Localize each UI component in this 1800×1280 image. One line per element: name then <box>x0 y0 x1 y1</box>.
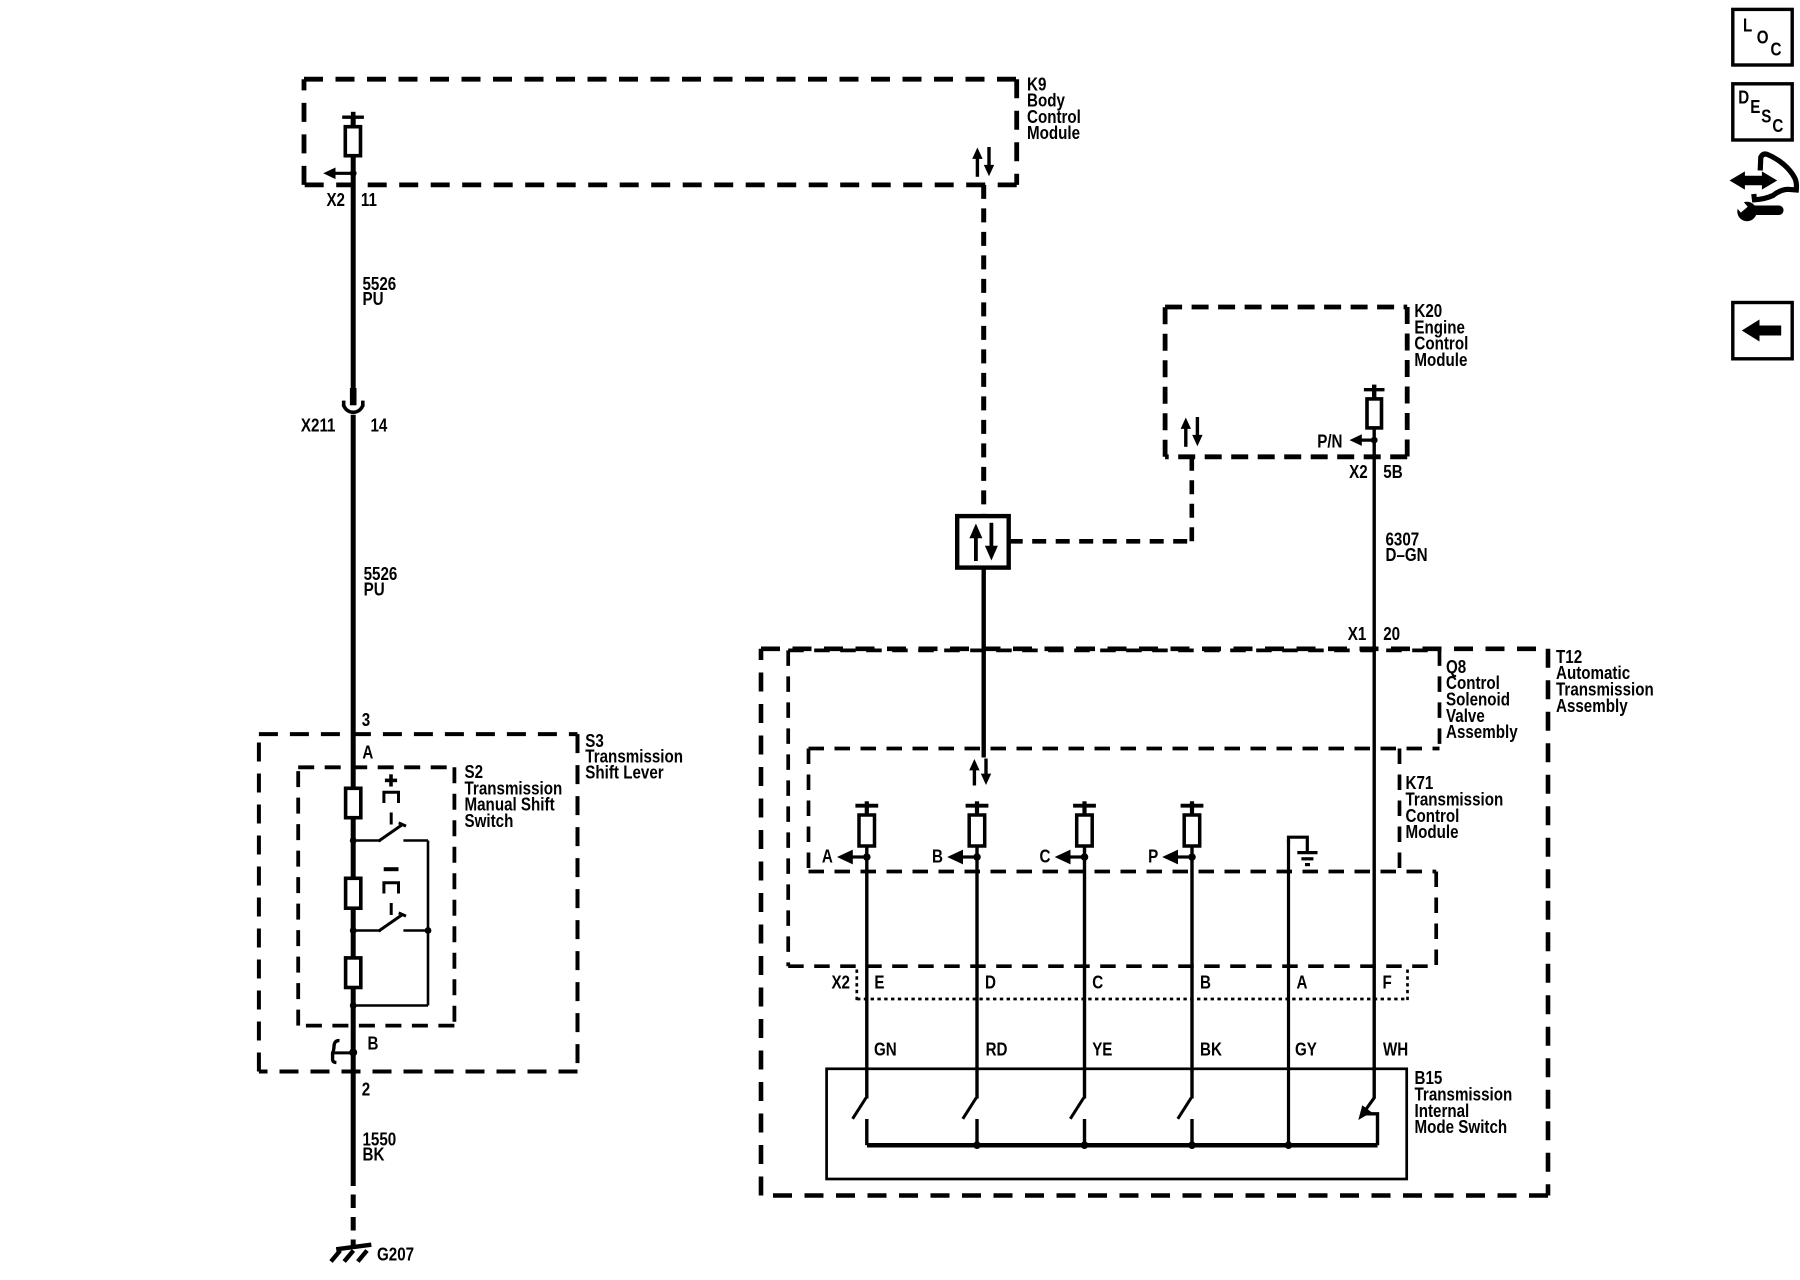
svg-text:S: S <box>1761 106 1771 127</box>
solenoid driver P in K71 <box>1162 801 1203 864</box>
wire: X211 to S2 (5526 PU lower) <box>351 415 356 791</box>
svg-text:11: 11 <box>361 190 377 211</box>
wire A (GY): ground to B15 bus <box>1287 840 1290 1145</box>
wire D: solenoid B to B15 <box>975 806 978 1099</box>
svg-text:Module: Module <box>1027 123 1080 144</box>
wire label 6307 D-GN <box>1386 529 1428 565</box>
solenoid driver C in K71 <box>1055 801 1096 864</box>
svg-text:E: E <box>874 972 884 993</box>
svg-text:PU: PU <box>364 579 385 600</box>
signal ground inside K71 <box>1289 837 1318 864</box>
wire B: solenoid P to B15 <box>1190 806 1193 1099</box>
svg-text:C: C <box>1772 115 1783 136</box>
node on bracket at downshift row <box>425 927 432 934</box>
svg-text:B: B <box>932 846 943 867</box>
resistor R2 <box>346 878 361 908</box>
svg-text:D: D <box>1738 87 1749 108</box>
svg-text:Module: Module <box>1406 822 1459 843</box>
svg-text:D: D <box>985 972 996 993</box>
T12 label <box>1556 646 1654 716</box>
svg-text:Switch: Switch <box>465 810 514 831</box>
wire E: solenoid A to B15 <box>865 806 868 1099</box>
connector pin letters E D C B A F <box>874 972 1391 993</box>
B15 Transmission Internal Mode Switch box <box>827 1069 1407 1179</box>
Q8 label <box>1446 656 1518 742</box>
svg-text:L: L <box>1743 15 1752 36</box>
T12 Automatic Transmission Assembly box <box>761 649 1548 1196</box>
dashed serial data wire from K9 to gateway box <box>981 185 986 516</box>
svg-text:14: 14 <box>371 415 388 436</box>
svg-text:BK: BK <box>1200 1039 1223 1060</box>
K20 Engine Control Module box <box>1165 307 1407 457</box>
solenoid driver B in K71 <box>947 801 988 864</box>
svg-text:P: P <box>1148 846 1158 867</box>
svg-text:B: B <box>368 1033 379 1054</box>
svg-text:WH: WH <box>1383 1039 1408 1060</box>
K71 label <box>1406 773 1504 843</box>
K71 Transmission Control Module box <box>809 749 1440 872</box>
svg-text:X1: X1 <box>1348 623 1367 644</box>
bus junction nodes <box>973 1141 1292 1149</box>
wire label 5526 PU (lower) <box>364 564 398 600</box>
wire color labels GN RD YE BK GY WH <box>874 1039 1408 1060</box>
pin labels X1 / 20 <box>1348 623 1400 644</box>
schematic navigation icon (arrows and wrench) <box>1733 154 1797 221</box>
S2 Transmission Manual Shift Switch box <box>298 767 454 1025</box>
mode switch contact E <box>853 1098 867 1145</box>
mode switch wiper contact F (with arrow) <box>1358 1098 1377 1145</box>
S3 label <box>585 730 683 782</box>
svg-text:GY: GY <box>1295 1039 1317 1060</box>
svg-text:Shift Lever: Shift Lever <box>585 762 664 783</box>
wire label 5526 PU (upper) <box>363 273 397 309</box>
svg-text:Mode Switch: Mode Switch <box>1415 1117 1508 1138</box>
upshift switch contact <box>353 823 428 841</box>
svg-text:A: A <box>1297 972 1308 993</box>
svg-text:X2: X2 <box>1349 462 1368 483</box>
node: R1-R2 junction <box>350 837 357 844</box>
back arrow icon button <box>1733 303 1792 359</box>
ground G207 <box>331 1245 371 1262</box>
wire through S2 (A to B) <box>351 789 356 1073</box>
svg-text:Assembly: Assembly <box>1556 695 1628 716</box>
fuse element inside K9 <box>342 112 364 156</box>
upshift actuator + <box>385 774 397 786</box>
node: R2-R3 junction <box>350 927 357 934</box>
svg-text:O: O <box>1757 27 1769 48</box>
resistor R1 <box>346 788 361 817</box>
K9 Body Control Module box <box>304 79 1017 185</box>
P/N output arrow in K20 <box>1350 434 1378 446</box>
K20 module label <box>1414 301 1468 371</box>
serial data arrows inside K9 <box>972 147 994 177</box>
common bus of B15 <box>867 1143 1378 1148</box>
K9 module label <box>1027 74 1081 144</box>
svg-text:3: 3 <box>362 710 370 731</box>
S2 label <box>465 762 563 832</box>
solenoid driver A in K71 <box>837 801 878 864</box>
K9 output arrow at pin X2-11 <box>323 168 356 180</box>
svg-text:P/N: P/N <box>1317 431 1342 452</box>
downshift actuator - <box>384 867 399 871</box>
svg-text:G207: G207 <box>377 1244 414 1265</box>
wire 1550 BK to ground <box>351 1071 356 1186</box>
serial data arrows inside K20 <box>1181 417 1203 447</box>
svg-text:X2: X2 <box>831 972 850 993</box>
svg-text:GN: GN <box>874 1039 897 1060</box>
wire C: solenoid C to B15 <box>1083 806 1086 1099</box>
svg-text:C: C <box>1092 972 1103 993</box>
X2 connector strip of T12 (bottom dotted edge and separators) <box>857 970 1408 1003</box>
Q8 Control Solenoid Valve Assembly box <box>788 650 1439 966</box>
svg-text:PU: PU <box>363 289 384 310</box>
wire label 1550 BK <box>363 1129 397 1165</box>
svg-text:RD: RD <box>986 1039 1008 1060</box>
svg-text:E: E <box>1750 96 1760 117</box>
upshift mechanical link (dashed) <box>384 792 399 824</box>
svg-text:X211: X211 <box>301 415 336 436</box>
common bracket wire <box>353 841 428 1006</box>
mode switch contact B <box>1178 1098 1192 1145</box>
B15 label <box>1415 1068 1513 1138</box>
svg-text:20: 20 <box>1383 623 1400 644</box>
svg-text:B: B <box>1200 972 1211 993</box>
svg-text:C: C <box>1040 846 1051 867</box>
serial data arrows inside K71 <box>969 759 991 786</box>
svg-text:A: A <box>362 742 373 763</box>
svg-text:C: C <box>1771 39 1782 60</box>
node: R3 bottom junction <box>350 1002 357 1009</box>
svg-text:Module: Module <box>1414 350 1467 371</box>
resistor R3 <box>346 958 361 988</box>
svg-text:5B: 5B <box>1383 462 1402 483</box>
svg-text:2: 2 <box>362 1079 370 1100</box>
downshift mechanical link (dashed) <box>384 883 399 915</box>
svg-text:YE: YE <box>1092 1039 1112 1060</box>
pin labels X2 / 5B <box>1349 462 1403 483</box>
mode switch contact C <box>1070 1098 1084 1145</box>
pin labels X2 / 11 <box>326 190 376 211</box>
svg-text:X2: X2 <box>326 190 345 211</box>
fuse element inside K20 <box>1364 385 1385 428</box>
in-line connector X211 pin 14 <box>344 388 364 412</box>
momentary contact at pin B <box>332 1041 358 1063</box>
LOC icon button <box>1733 9 1792 65</box>
connector labels X211 / 14 <box>301 415 388 436</box>
S3 Transmission Shift Lever box <box>259 734 578 1071</box>
serial data gateway box <box>957 516 1009 568</box>
svg-text:A: A <box>822 846 833 867</box>
dashed serial data link: gateway to K20 <box>1009 457 1192 542</box>
svg-text:F: F <box>1383 972 1392 993</box>
svg-text:BK: BK <box>363 1144 386 1165</box>
svg-text:Assembly: Assembly <box>1446 722 1518 743</box>
DESC icon button <box>1733 84 1792 140</box>
downshift switch contact <box>353 913 428 931</box>
wire: K9 fuse to in-line connector X211 (left branch) <box>351 117 356 390</box>
svg-text:D–GN: D–GN <box>1386 544 1428 565</box>
wire: K20 fuse to B15 (6307 D-GN) <box>1372 390 1375 1099</box>
serial data wire: gateway into K71 <box>982 568 986 758</box>
mode switch contact D <box>963 1098 977 1145</box>
